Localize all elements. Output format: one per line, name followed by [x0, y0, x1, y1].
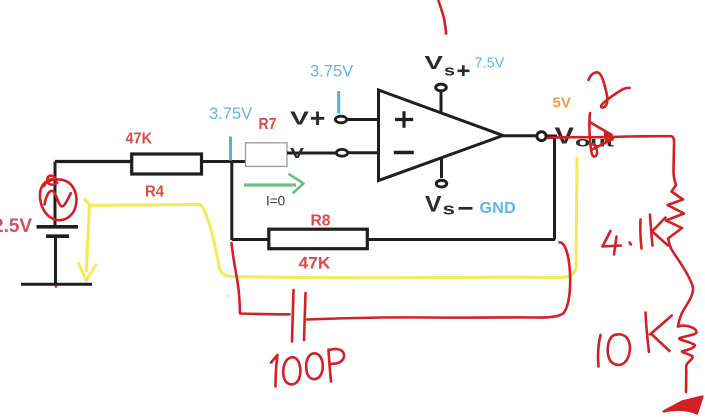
wire: non-inverting terminal to op-amp — [346, 118, 379, 121]
wire: output stub to Vout — [547, 135, 557, 138]
red handwritten 1 (100P) — [271, 355, 278, 387]
svg-text:GND: GND — [480, 200, 516, 217]
red sine wave inside source — [45, 191, 71, 207]
red handwritten P (100P) — [329, 349, 345, 381]
green current arrow I=0 shaft — [244, 183, 296, 186]
terminal circle: non-inverting input — [335, 116, 346, 123]
wire: inverting terminal to op-amp — [347, 151, 379, 154]
green current arrow head — [290, 175, 304, 193]
svg-text:R8: R8 — [311, 213, 331, 230]
red horizontal line from Vout to right — [548, 136, 671, 138]
Vs+ terminal circle — [436, 84, 447, 91]
svg-text:R4: R4 — [145, 184, 164, 201]
voltage source V1: long plate — [37, 225, 79, 229]
Vs- terminal circle — [436, 180, 446, 187]
terminal circle: inverting input — [336, 149, 347, 156]
faint gray dot — [228, 295, 230, 297]
red handwritten 1 — [640, 220, 641, 249]
yellow highlighter path from source around bottom to output — [79, 158, 577, 281]
wire: R7 to inverting input — [287, 152, 336, 155]
svg-text:7.5V: 7.5V — [475, 56, 505, 72]
wire: main top wire from source to R4 — [55, 160, 131, 163]
svg-text:V: V — [425, 53, 444, 73]
red AC-source circle scribble around battery — [40, 176, 76, 221]
wire: op-amp output — [503, 134, 536, 137]
yellow arrow stem — [86, 206, 89, 271]
red dot below ground — [55, 285, 58, 288]
svg-text:V: V — [425, 192, 442, 217]
Vs+ stem wire — [440, 92, 443, 113]
svg-text:I=0: I=0 — [266, 194, 285, 209]
red handwritten 4 — [603, 231, 622, 255]
red handwritten 1 (10K) — [598, 335, 600, 367]
red handwritten 0 second (100P) — [306, 353, 323, 379]
op-amp U1 triangle — [379, 90, 504, 181]
Vs- stem wire — [440, 158, 443, 179]
op-amp minus sign — [394, 151, 414, 154]
red corner down on right — [671, 136, 676, 185]
wire: feedback vertical from Vout node down — [553, 137, 556, 240]
resistor R8 — [269, 229, 368, 249]
red ground arrow blob (bottom right) — [664, 397, 703, 414]
red scribble vertical stroke at Vout — [589, 113, 597, 157]
svg-text:5V: 5V — [553, 95, 571, 112]
cyan tick at V+ node — [337, 91, 340, 114]
red capacitor loop right side — [307, 242, 570, 319]
red mark 2 (top right) — [589, 72, 630, 107]
yellow arrow head — [79, 264, 96, 281]
wire: bottom feedback wire through R8 — [232, 238, 555, 241]
red handwritten dot — [630, 243, 632, 245]
wire: battery to ground — [54, 238, 57, 283]
wire: R4 right to junction and R7 — [203, 160, 246, 163]
op-amp plus sign — [395, 111, 413, 127]
svg-text:s: s — [444, 63, 455, 80]
svg-text:V: V — [290, 145, 304, 162]
ground bar — [21, 283, 92, 286]
red handwritten K (10K) — [646, 313, 672, 353]
red arrowhead strokes at Vout — [591, 123, 613, 150]
voltage source V1: wire down from top wire — [54, 162, 57, 226]
red capacitor loop left side — [232, 243, 290, 314]
red resistor zigzag 10K — [678, 326, 697, 371]
resistor R7 (thin box) — [246, 143, 288, 167]
red capacitor left plate — [292, 290, 294, 342]
svg-text:V: V — [290, 109, 309, 129]
red handwritten 0 (10K) — [608, 334, 630, 365]
yellow main loop — [85, 158, 578, 278]
svg-text:47K: 47K — [126, 131, 153, 148]
red tail to ground arrow — [685, 371, 688, 392]
red capacitor right plate — [304, 293, 306, 340]
svg-text:R7: R7 — [259, 116, 277, 133]
svg-text:s: s — [443, 200, 456, 219]
red resistor zigzag 4.1K — [666, 185, 684, 249]
svg-text:V: V — [555, 123, 575, 149]
terminal circle: output — [537, 132, 546, 141]
red wire between zigzags — [671, 249, 693, 327]
svg-text:47K: 47K — [299, 255, 331, 273]
voltage source V1: short plate — [46, 234, 69, 238]
svg-text:3.75V: 3.75V — [209, 105, 252, 123]
resistor R4 — [132, 154, 202, 174]
red handwritten K (4.1K) — [650, 215, 668, 246]
red handwritten 0 (100P) — [283, 357, 300, 384]
red mark 1 (top) — [439, 1, 447, 34]
cyan tick at R7 input node — [229, 137, 232, 161]
red arrowhead fill at Vout — [605, 133, 616, 143]
svg-text:2.5V: 2.5V — [0, 216, 32, 237]
svg-text:3.75V: 3.75V — [310, 63, 353, 81]
wire: junction vertical down to feedback bottom wire — [230, 162, 233, 241]
